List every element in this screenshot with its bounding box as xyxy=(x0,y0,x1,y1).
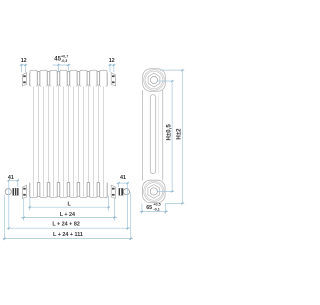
dim 41 left xyxy=(7,179,19,181)
svg-text:L + 24: L + 24 xyxy=(60,212,75,218)
wall bracket top-right xyxy=(111,73,115,86)
dim L+24+111 row xyxy=(3,195,5,241)
right valve: union body with dark bars xyxy=(119,188,124,195)
svg-text:H±2: H±2 xyxy=(175,128,182,140)
svg-text:41: 41 xyxy=(120,175,126,181)
tube shading lines (middle region, half-pitch spacing) xyxy=(34,85,104,197)
dim L+24 row xyxy=(23,198,25,220)
dim 65 xyxy=(141,204,143,214)
left valve: handwheel circle xyxy=(5,189,11,195)
wall bracket top-left xyxy=(22,73,26,86)
dim H+-0,5 xyxy=(158,80,174,82)
bottom collector left end cap xyxy=(29,183,30,198)
side view column outer edges xyxy=(141,90,143,181)
dim 12 right xyxy=(109,64,111,72)
svg-text:+0,7: +0,7 xyxy=(61,55,68,59)
bottom header slots between sections xyxy=(37,182,100,196)
right valve: handwheel circle xyxy=(123,189,129,195)
svg-text:-0,3: -0,3 xyxy=(61,59,67,63)
dim 12 left xyxy=(21,64,23,72)
svg-text:L + 24 + 82: L + 24 + 82 xyxy=(52,221,79,227)
svg-text:41: 41 xyxy=(8,175,14,181)
dim L row xyxy=(29,196,31,211)
svg-text:H±0,5: H±0,5 xyxy=(166,124,173,141)
wall bracket bottom-right xyxy=(111,185,115,198)
svg-text:12: 12 xyxy=(109,58,115,64)
svg-text:+0,5: +0,5 xyxy=(153,202,160,206)
top header slots between sections xyxy=(37,71,99,85)
dim L+24+82 row xyxy=(7,227,131,229)
left valve: union body with dark bars xyxy=(13,188,19,195)
wall bracket bottom-left xyxy=(22,185,26,198)
dim 41 right xyxy=(117,182,129,184)
side view bottom fitting xyxy=(143,180,166,202)
tube bottom shapes xyxy=(30,183,107,198)
svg-text:65: 65 xyxy=(146,205,152,211)
svg-text:12: 12 xyxy=(21,58,27,64)
svg-text:L + 24 + 111: L + 24 + 111 xyxy=(53,232,83,238)
svg-text:-0,1: -0,1 xyxy=(153,207,159,211)
bottom collector right end cap xyxy=(106,183,108,198)
radiator front view: tube top shapes (8 sections) xyxy=(30,70,107,86)
top header right end cap xyxy=(106,73,108,86)
side view center slot xyxy=(150,95,155,174)
top header left end cap xyxy=(28,73,30,86)
svg-text:L: L xyxy=(68,201,72,207)
side view top fitting xyxy=(143,69,166,91)
dim H+-2 xyxy=(160,69,184,71)
dim 45 top xyxy=(58,64,60,72)
